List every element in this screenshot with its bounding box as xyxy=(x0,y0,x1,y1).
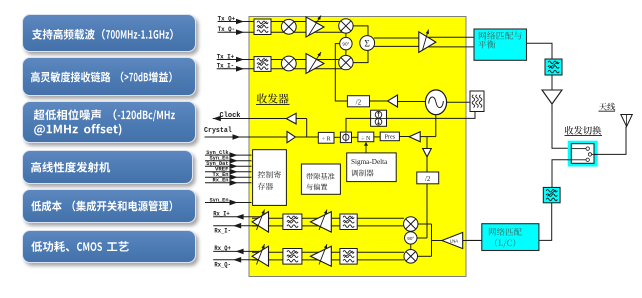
antenna label xyxy=(599,103,615,111)
svg-text:Tx_I-: Tx_I- xyxy=(217,63,235,70)
wire to Rx divider xyxy=(426,157,428,172)
node Tx I- xyxy=(217,68,254,70)
mixer Tx Q up-conversion 2 xyxy=(339,19,353,33)
mixer Rx Q down-conversion xyxy=(404,249,418,263)
mixer Rx I down-conversion xyxy=(404,217,418,231)
node Rx Q- output xyxy=(213,259,258,261)
amplifier Rx I VGA 1 xyxy=(252,212,268,233)
wire switch to antenna xyxy=(594,127,626,155)
wire sigma-delta to divN arrow xyxy=(365,145,367,153)
node VREF input xyxy=(205,171,252,173)
divider /2 Tx box xyxy=(347,96,369,107)
wire balun to Tx filter xyxy=(527,43,553,59)
wire buffer to VCO net xyxy=(420,136,436,138)
oscillator VCO xyxy=(425,90,446,115)
svg-text:/2: /2 xyxy=(356,98,362,106)
phase shifter 90 deg Rx xyxy=(405,232,417,244)
wire prescaler to buffer xyxy=(399,136,409,138)
node Syn_En input xyxy=(205,160,252,162)
network matching LC box xyxy=(482,224,539,251)
svg-text:Clock: Clock xyxy=(220,112,241,120)
svg-text:Tx_I+: Tx_I+ xyxy=(217,53,235,60)
amplifier antenna driver xyxy=(542,90,562,104)
svg-text:Rx_En: Rx_En xyxy=(213,177,229,184)
wire Rx Q differential pair xyxy=(252,251,404,253)
wire junction down to divider xyxy=(426,137,428,149)
transceiver chip block xyxy=(249,17,466,277)
node Tx Q- xyxy=(218,31,254,33)
amplifier PLL feedback buffer xyxy=(409,132,420,142)
wire 90deg to divider /2 xyxy=(335,44,347,101)
wire Tx I differential pair xyxy=(254,59,346,61)
svg-text:÷ R: ÷ R xyxy=(322,137,331,143)
network matching balun box xyxy=(474,29,527,60)
phase detector phi xyxy=(340,132,351,143)
svg-text:Rx_I+: Rx_I+ xyxy=(213,210,230,217)
svg-text:Rx_Q+: Rx_Q+ xyxy=(214,245,231,252)
amplifier Rx Q VGA 2 xyxy=(311,246,332,266)
wire divN to prescaler xyxy=(374,136,380,138)
filter Rx Q 1 xyxy=(283,249,302,265)
crystal resonator box xyxy=(470,91,484,112)
svg-text:Sigma-Delta: Sigma-Delta xyxy=(351,158,388,166)
node Tx_En input xyxy=(205,176,252,178)
antenna symbol xyxy=(621,115,633,127)
node Rx_En input xyxy=(205,182,252,184)
amplifier Tx LO buffer xyxy=(388,95,398,107)
amplifier LNA xyxy=(442,232,463,248)
wire driver to switch xyxy=(552,104,571,148)
wire mixer I to summer xyxy=(353,50,368,63)
svg-text:Crystal: Crystal xyxy=(204,127,232,135)
wire crystal buffer to divider R xyxy=(295,136,318,138)
wire summer to PA pair xyxy=(374,37,419,39)
wire Rx quadrature vertical xyxy=(410,224,412,257)
sigma-delta modulator box xyxy=(347,153,397,182)
wire Tx Q differential pair xyxy=(254,21,346,23)
filter Rx I 1 xyxy=(283,214,302,230)
node transceiver label xyxy=(257,94,289,104)
feature bullet 2 xyxy=(22,57,196,96)
wire phase detector to crystal tank xyxy=(346,112,475,133)
amplifier clock buffer xyxy=(286,113,296,124)
feature bullet 4 xyxy=(22,150,193,184)
amplifier Rx Q VGA 1 xyxy=(252,246,268,266)
svg-text:Tx_Q-: Tx_Q- xyxy=(218,26,236,33)
amplifier PA xyxy=(419,32,436,53)
amplifier Rx I VGA 2 xyxy=(311,212,332,233)
divider /2 Rx box xyxy=(417,172,439,184)
node Rx Q+ output xyxy=(213,250,260,252)
node Clock output xyxy=(213,118,286,120)
filter Tx SAW xyxy=(545,59,562,75)
amplifier Tx I VGA xyxy=(306,54,324,74)
svg-text:90°: 90° xyxy=(342,42,349,47)
wire LNA input from matching xyxy=(463,240,482,242)
feature bullet 5 xyxy=(22,189,196,223)
svg-text:90°: 90° xyxy=(407,236,414,241)
mixer Tx I up-conversion 1 xyxy=(281,56,296,71)
node Rx I+ output xyxy=(213,216,260,218)
feature bullet 6 xyxy=(22,230,196,264)
summer sigma Tx xyxy=(360,36,375,51)
svg-text:Rx_Q-: Rx_Q- xyxy=(214,262,231,269)
amplifier crystal buffer xyxy=(287,131,295,142)
svg-text:Rx_I-: Rx_I- xyxy=(214,228,231,235)
wire Rx I differential pair xyxy=(252,217,404,219)
wire Rx filter to LC matching xyxy=(539,203,552,241)
node Syn_Dat input xyxy=(205,165,252,167)
svg-text:Pres: Pres xyxy=(384,134,395,141)
wire divR to phase detector xyxy=(334,136,340,138)
svg-text:Σ: Σ xyxy=(364,40,370,50)
mixer Tx I up-conversion 2 xyxy=(339,55,353,69)
node Crystal input xyxy=(205,136,288,138)
filter Tx I baseband xyxy=(254,57,271,72)
phase shifter 90 deg Tx xyxy=(340,37,352,49)
TR switch label xyxy=(565,126,602,135)
control register box xyxy=(253,150,287,206)
amplifier Tx Q VGA xyxy=(306,17,324,37)
svg-text:/2: /2 xyxy=(425,175,431,183)
svg-text:÷ N: ÷ N xyxy=(361,136,371,142)
wire Rx LO from divider xyxy=(426,184,428,238)
svg-text:LNA: LNA xyxy=(450,239,458,244)
wire Tx LO quadrature vertical xyxy=(345,26,347,63)
filter Rx SAW xyxy=(543,187,560,202)
wire PA to matching network pair xyxy=(428,36,474,38)
svg-text:Tx_Q+: Tx_Q+ xyxy=(218,15,236,22)
charge pump box xyxy=(371,110,387,126)
wire phase detector to divider N xyxy=(352,136,358,138)
prescaler box xyxy=(380,132,399,141)
divider R box xyxy=(318,132,334,143)
mixer Tx Q up-conversion 1 xyxy=(281,19,296,34)
feature bullet 1 xyxy=(22,14,196,52)
divider N box xyxy=(358,132,374,142)
node Syn_En input xyxy=(205,202,252,204)
node Rx I- output xyxy=(213,225,258,227)
node Tx I+ xyxy=(217,59,254,61)
wire /2 to buffer xyxy=(370,100,388,102)
wire buffer to VCO xyxy=(398,101,426,103)
wire VCO to crystal tank xyxy=(447,101,470,103)
wire switch to Rx filter xyxy=(552,160,571,188)
node Syn_Clk input xyxy=(205,154,252,156)
filter Rx Q 2 xyxy=(340,249,357,265)
amplifier LO buffer down xyxy=(423,149,432,157)
wire LC matching to chip xyxy=(466,239,482,241)
wire filter to antenna driver xyxy=(551,75,553,90)
filter Tx Q baseband xyxy=(254,19,271,35)
wire clock buffer input net xyxy=(296,118,307,120)
TR switch box xyxy=(568,141,597,166)
svg-text:Syn_En: Syn_En xyxy=(210,196,229,203)
bandgap reference box xyxy=(301,164,340,194)
filter Rx I 2 xyxy=(340,214,357,230)
feature bullet 3 xyxy=(22,101,196,143)
node Tx Q+ xyxy=(218,21,254,23)
wire mixer Q to summer xyxy=(353,26,368,36)
wire LNA to mixers xyxy=(418,223,432,225)
